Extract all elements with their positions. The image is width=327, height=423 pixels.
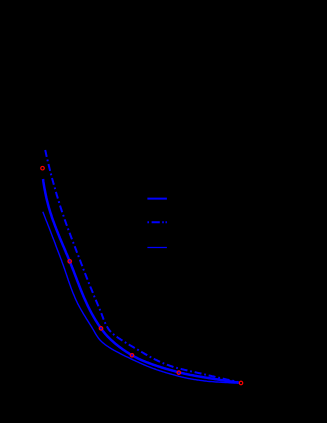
marker 1: red open circle data point [41, 166, 45, 170]
marker 4: red open circle data point [130, 354, 134, 358]
marker 6: red open circle data point [239, 381, 243, 385]
marker 2: red open circle data point [68, 260, 72, 264]
legend line 3: thin solid blue [147, 247, 167, 249]
curve A: dash-dot blue fit curve (top) [45, 150, 238, 382]
marker 3: red open circle data point [99, 327, 103, 331]
marker 5: red open circle data point [177, 371, 181, 375]
legend line 2: dash-dot blue [147, 221, 167, 223]
legend line 1: thick solid blue [147, 198, 167, 200]
curve B: thick solid blue fit curve (middle) [43, 179, 239, 383]
curve C: thin solid blue fit curve (bottom) [43, 212, 239, 384]
